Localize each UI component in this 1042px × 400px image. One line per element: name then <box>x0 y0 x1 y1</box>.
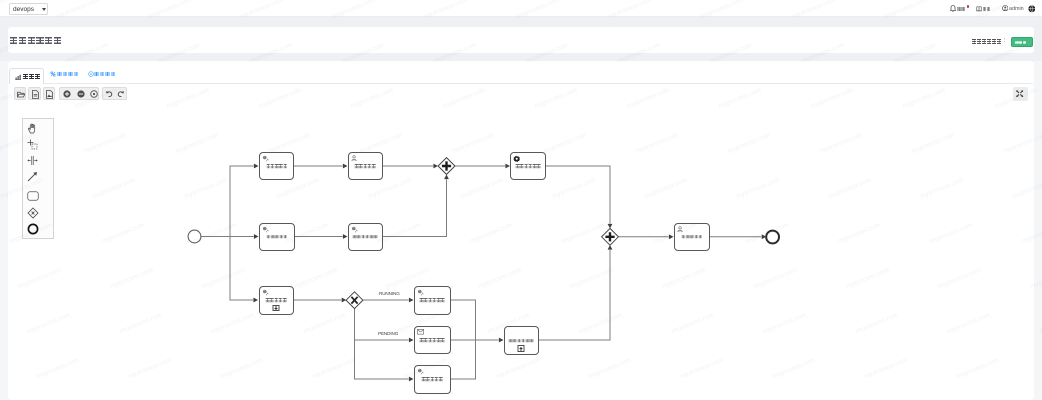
status label 流程校验状态: <box>972 39 1002 44</box>
end event <box>766 231 779 244</box>
globe dark <box>1028 5 1036 13</box>
fullscreen button <box>1013 87 1028 101</box>
red badge dot <box>967 5 970 8</box>
wire: exclusive gateway to 系统初始化 <box>355 309 409 379</box>
watermarks <box>0 0 8 20</box>
tab3 关联任务 <box>88 71 94 77</box>
task 运维处理程序 <box>504 326 539 355</box>
task 自动服务C <box>259 286 294 315</box>
wire: 自动服务B to 查看服务状态 <box>295 236 343 238</box>
wire: 运维处理程序 to parallel gateway 2 bottom <box>539 250 611 340</box>
hand tool <box>27 123 38 134</box>
wire: 查看服务状态 to 运维处理程序 <box>451 300 476 340</box>
wire: 查看服务状态 to parallel gateway 1 bottom <box>383 180 447 237</box>
zoom-in icon <box>63 90 71 98</box>
task 查看服务状态2 <box>414 286 451 315</box>
page title 核心系统上线 <box>10 37 61 45</box>
toolbar buttons group 1: open/save/export <box>14 87 26 100</box>
wire: 管理员审批 to end event <box>710 236 761 238</box>
top header bar <box>0 0 1042 17</box>
tab bar bottom border <box>9 83 1033 84</box>
space tool <box>27 155 38 166</box>
zoom-out icon <box>77 90 85 98</box>
wire: 自动服务A to 管理员审批 <box>294 165 343 167</box>
palette container <box>22 118 54 239</box>
toolbar group 3: undo/redo <box>102 87 128 100</box>
wire: 系统初始化 to 运维处理程序 <box>451 340 476 379</box>
create task <box>27 191 39 201</box>
wire: gateway 1 to 变更状态扫描 <box>455 165 505 167</box>
status badge green <box>1011 37 1033 47</box>
redo icon <box>117 90 125 98</box>
title card <box>8 27 1034 53</box>
global connect tool <box>27 171 38 182</box>
file-image icon <box>46 90 53 99</box>
tab1 active 流程图 <box>9 68 44 84</box>
task 变更状态扫描 <box>510 152 546 180</box>
folder-open icon <box>17 91 25 98</box>
gateway exclusive GWX <box>346 292 363 309</box>
label RUNNING <box>379 291 400 296</box>
wire: gateway 2 to 管理员审批 final <box>618 236 668 238</box>
task 自动服务B <box>259 223 295 251</box>
wire RUNNING: exclusive gateway to 查看服务状态 <box>363 299 409 301</box>
task 管理员审批2 <box>674 223 711 251</box>
task 研发发送通知 <box>414 326 451 355</box>
create start event <box>27 223 39 235</box>
bell icon + 消息 <box>950 5 956 12</box>
task 查看服务状态 <box>348 223 383 251</box>
tab2 任务节点 <box>50 71 56 77</box>
start event <box>188 230 201 243</box>
gateway parallel GW2 <box>602 228 619 245</box>
label PENDING <box>378 331 398 336</box>
toolbar group 2: zoom in/out/reset <box>59 87 99 100</box>
project select devops <box>9 3 48 15</box>
gateway parallel GW1 <box>438 158 455 175</box>
create gateway <box>27 207 39 219</box>
avatar + admin <box>1002 5 1008 11</box>
wire: 变更状态扫描 to parallel gateway 2 top <box>546 166 610 224</box>
caret <box>42 8 46 11</box>
wire: 研发发送通知 to 运维处理程序 <box>451 339 499 341</box>
book icon + 文档 <box>976 6 982 12</box>
undo icon <box>105 90 113 98</box>
wire: start to task 自动服务B <box>230 236 254 238</box>
file-code icon <box>32 90 39 99</box>
task 系统初始化 <box>414 365 451 394</box>
fullscreen icon <box>1016 90 1023 97</box>
wire PENDING: exclusive gateway to 研发发送通知 <box>355 309 409 340</box>
wire: split to task 自动服务C <box>230 237 253 301</box>
lasso tool <box>27 139 38 150</box>
task 自动服务A <box>259 152 294 181</box>
wire: 管理员审批 to parallel gateway 1 <box>383 165 434 167</box>
zoom-reset icon <box>90 90 98 98</box>
task 管理员审批 <box>348 152 383 180</box>
wire: 自动服务C to exclusive gateway <box>294 299 342 301</box>
wire: start to split point <box>201 236 230 238</box>
wire: split to task 自动服务A <box>230 166 254 237</box>
